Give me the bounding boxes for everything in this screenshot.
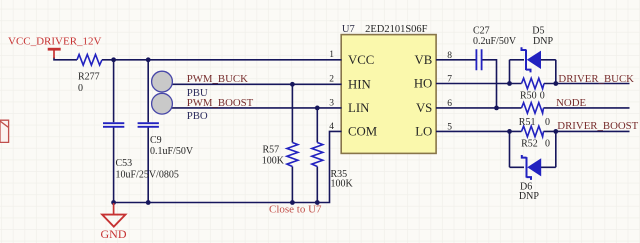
svg-text:0: 0 (545, 138, 550, 149)
svg-text:DNP: DNP (533, 36, 553, 47)
svg-text:0: 0 (540, 91, 545, 102)
svg-text:PBO: PBO (187, 110, 208, 122)
svg-text:HIN: HIN (348, 77, 371, 91)
svg-text:U7: U7 (342, 24, 355, 35)
svg-text:LO: LO (415, 125, 432, 139)
svg-text:0: 0 (545, 117, 550, 128)
svg-text:VS: VS (416, 101, 432, 115)
svg-text:0.1uF/50V: 0.1uF/50V (150, 146, 194, 157)
svg-text:2ED2101S06F: 2ED2101S06F (365, 24, 428, 35)
svg-text:DRIVER_BOOST: DRIVER_BOOST (557, 120, 638, 132)
svg-text:R57: R57 (263, 145, 280, 156)
svg-text:1: 1 (329, 50, 334, 60)
svg-text:NODE: NODE (556, 97, 586, 109)
svg-text:10uF/25V/0805: 10uF/25V/0805 (116, 169, 179, 180)
svg-text:5: 5 (447, 123, 452, 133)
svg-text:R277: R277 (78, 71, 100, 82)
svg-text:VCC_DRIVER_12V: VCC_DRIVER_12V (8, 35, 102, 47)
svg-text:VCC: VCC (348, 53, 374, 67)
svg-text:3: 3 (329, 98, 334, 108)
svg-text:R50: R50 (520, 91, 537, 102)
svg-text:GND: GND (101, 227, 127, 241)
svg-text:R51: R51 (519, 117, 536, 128)
svg-text:LIN: LIN (348, 101, 369, 115)
svg-text:DNP: DNP (519, 191, 539, 202)
svg-text:VB: VB (415, 53, 433, 67)
svg-text:PWM_BUCK: PWM_BUCK (187, 73, 248, 85)
svg-text:2: 2 (329, 75, 334, 85)
svg-text:HO: HO (414, 77, 432, 91)
svg-text:7: 7 (447, 75, 452, 85)
svg-text:100K: 100K (262, 156, 285, 167)
svg-text:Close to U7: Close to U7 (269, 204, 322, 216)
svg-text:100K: 100K (331, 178, 354, 189)
svg-text:6: 6 (447, 99, 452, 109)
svg-text:R52: R52 (521, 138, 538, 149)
svg-text:0.2uF/50V: 0.2uF/50V (473, 36, 517, 47)
svg-text:8: 8 (447, 51, 452, 61)
svg-text:C9: C9 (150, 135, 162, 146)
svg-text:0: 0 (78, 83, 83, 94)
svg-text:C53: C53 (116, 158, 133, 169)
svg-text:DRIVER_BUCK: DRIVER_BUCK (558, 73, 634, 85)
svg-text:COM: COM (348, 125, 377, 139)
svg-text:PBU: PBU (187, 87, 208, 99)
svg-text:4: 4 (329, 122, 334, 132)
